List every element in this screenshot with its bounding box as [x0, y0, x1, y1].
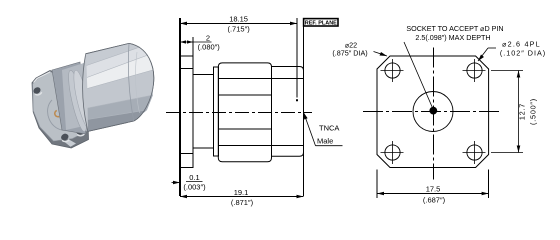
flange hole bottom-right: [75, 127, 85, 136]
barrel: [272, 67, 304, 157]
hex facet band lower: [88, 95, 153, 120]
hex body: [83, 43, 154, 131]
dia22 leader: [374, 52, 388, 57]
svg-text:19.1: 19.1: [234, 188, 249, 197]
cap chamfer ring: [135, 52, 139, 113]
flange plate thickness silhouette: [32, 71, 89, 149]
hex flat line 1: [218, 78, 271, 80]
REF. PLANE box label: [304, 19, 338, 27]
hole bottom-right: [463, 141, 486, 164]
dimension 0.1: [172, 181, 203, 185]
ref plane extension line: [296, 18, 298, 98]
dimension 18.15: [180, 22, 297, 26]
hex facet boundary lines: [87, 47, 154, 120]
vertical centerline: [433, 48, 435, 180]
flange hole top-left: [32, 86, 42, 95]
ref plane dot: [296, 99, 298, 101]
hex facet band mid: [87, 70, 153, 108]
svg-text:12.7: 12.7: [518, 103, 527, 120]
flange square outline with chamfered corners: [377, 56, 489, 168]
svg-text:0.1: 0.1: [189, 173, 199, 182]
centerline axis: [166, 112, 312, 114]
dimension 2: [180, 40, 212, 43]
washer: [213, 67, 218, 156]
plate bottom chamfer facet: [64, 140, 76, 147]
center circle: [413, 92, 453, 132]
TNCA Male label: [304, 112, 343, 145]
hex flat line 2: [218, 94, 271, 96]
dimension 12.7: [491, 71, 523, 153]
hex facet band light: [87, 47, 149, 78]
svg-text:SOCKET TO ACCEPT ⌀D PIN: SOCKET TO ACCEPT ⌀D PIN: [406, 24, 503, 33]
flange chamfer line bottom: [180, 153, 193, 155]
washer front ring: [70, 69, 94, 130]
hex facet band specular: [87, 55, 153, 89]
dimension 19.1: [180, 195, 304, 199]
svg-text:(.871″): (.871″): [231, 198, 254, 207]
dimension 17.5: [377, 170, 489, 199]
svg-text:(.715″): (.715″): [227, 25, 250, 34]
orange dielectric mark: [55, 111, 59, 117]
body filler behind washer: [62, 61, 93, 130]
socket leader line: [404, 42, 433, 109]
dia2.6 leader: [478, 48, 496, 61]
hex facet band top: [86, 44, 140, 66]
barrel inner line top: [272, 78, 304, 80]
svg-text:(.687″): (.687″): [423, 196, 446, 205]
svg-text:(.080″): (.080″): [198, 43, 221, 52]
svg-text:Male: Male: [317, 137, 333, 146]
hex nut outline: [218, 63, 271, 162]
neck cylinder: [52, 62, 86, 134]
svg-text:(.500″): (.500″): [529, 98, 538, 125]
center socket dot: [429, 107, 437, 115]
body outline redraw: [86, 43, 154, 131]
svg-text:2: 2: [206, 34, 210, 43]
hex-cap boundary: [128, 43, 133, 121]
left extension line: [179, 18, 181, 196]
svg-text:18.15: 18.15: [229, 14, 248, 23]
hole top-right: [463, 59, 486, 82]
svg-text:(.102″ DIA): (.102″ DIA): [500, 49, 546, 58]
svg-text:(.003″): (.003″): [183, 183, 206, 192]
hex flat line 4: [218, 144, 271, 146]
flange side rect: [180, 56, 193, 168]
horizontal centerline: [363, 111, 500, 113]
svg-text:2.5(.098″) MAX DEPTH: 2.5(.098″) MAX DEPTH: [415, 33, 490, 42]
svg-text:⌀2.6 4PL: ⌀2.6 4PL: [502, 40, 541, 49]
extension line flange right: [192, 37, 194, 56]
flange plate face: [33, 72, 87, 141]
flange hole bottom-left: [60, 132, 70, 141]
hole bottom-left: [381, 141, 404, 164]
hex facet band bottom: [88, 110, 147, 131]
flange chamfer line top: [180, 67, 193, 69]
plate face boss arc: [48, 100, 65, 130]
svg-text:17.5: 17.5: [426, 185, 441, 194]
barrel inner line bottom: [272, 145, 304, 147]
3D isometric view of connector: [32, 43, 154, 148]
svg-text:(.875″ DIA): (.875″ DIA): [332, 49, 367, 58]
neck: [193, 75, 213, 148]
washer back ring: [65, 69, 90, 133]
svg-text:TNCA: TNCA: [319, 124, 339, 133]
right extension line (barrel tip): [303, 26, 305, 196]
svg-text:REF. PLANE: REF. PLANE: [305, 20, 337, 26]
hex flat line 3: [218, 128, 271, 130]
plate top edge highlight: [34, 72, 51, 83]
hole top-left: [381, 59, 404, 82]
